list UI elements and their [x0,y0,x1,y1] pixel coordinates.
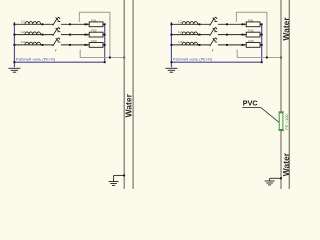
svg-text:PVC: PVC [243,98,258,107]
svg-text:Water: Water [281,152,291,176]
svg-text:Water: Water [123,93,133,117]
svg-text:Water: Water [281,17,291,41]
svg-text:PE +100: PE +100 [284,114,289,130]
